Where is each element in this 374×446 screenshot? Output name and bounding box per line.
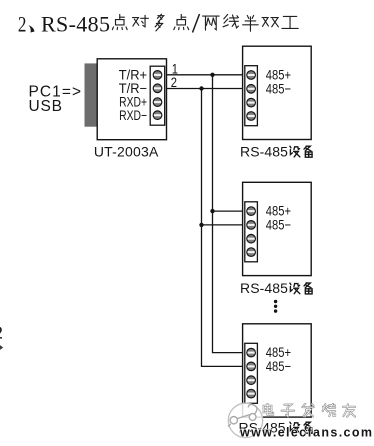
- svg-text:485−: 485−: [266, 217, 291, 232]
- device 2 screw 4: [247, 248, 256, 257]
- wire 1: T/R+ to 485+ bus: [167, 74, 245, 76]
- device 3 screw 485+: [247, 348, 256, 357]
- device 1 screw 485+: [247, 71, 256, 80]
- svg-text:RS-485: RS-485: [41, 11, 110, 36]
- device 3 screw 3: [247, 376, 256, 385]
- watermark logo circle: [228, 403, 263, 437]
- terminal screw converter pin T/R-: [153, 84, 162, 93]
- wire: 485+ bus vertical drop to device 3: [213, 75, 245, 353]
- device 1 name RS-485设备: [240, 143, 312, 159]
- device 3 screw 4: [247, 389, 256, 398]
- converter UT-2003A box: [97, 59, 166, 140]
- svg-text:RS-485: RS-485: [240, 280, 288, 296]
- device 3 screw 485-: [247, 362, 256, 371]
- svg-text:485−: 485−: [266, 81, 291, 96]
- terminal screw converter pin T/R+: [153, 71, 162, 80]
- device 1 screw 485-: [247, 85, 256, 94]
- device 3 terminal strip: [245, 343, 258, 403]
- svg-text:UT-2003A: UT-2003A: [94, 143, 159, 159]
- terminal screw converter pin RXD-: [153, 111, 162, 120]
- device 2 screw 485+: [247, 207, 256, 216]
- wire: branch to device 2 485+: [213, 210, 245, 212]
- svg-text:RS-485: RS-485: [240, 143, 288, 159]
- device 3 RS-485 box: [243, 324, 312, 417]
- terminal screw converter pin RXD+: [153, 98, 162, 107]
- label PC1=>USB: [29, 84, 82, 116]
- converter terminal strip: [150, 66, 165, 125]
- wire: branch to device 2 485-: [202, 224, 245, 226]
- svg-text:2: 2: [0, 322, 3, 342]
- wire 2: T/R- to 485- bus: [167, 88, 245, 90]
- svg-text:RXD−: RXD−: [119, 107, 147, 123]
- junction dot wire1 top: [210, 73, 214, 77]
- junction dot device2 485- branch: [199, 223, 203, 227]
- title: 2、RS-485点对多点/两线半双工: [18, 11, 298, 37]
- svg-text:485−: 485−: [266, 359, 291, 374]
- device 1 terminal strip: [245, 66, 258, 126]
- wire: 485- bus vertical drop to device 3: [202, 89, 245, 367]
- device 3 name RS-485设备 (partly under watermark): [239, 419, 313, 435]
- watermark text 电子发烧友: [264, 404, 356, 417]
- device 2 screw 485-: [247, 221, 256, 230]
- device 2 terminal strip: [245, 202, 258, 262]
- device 2 RS-485 box: [243, 182, 312, 275]
- svg-text:2: 2: [18, 12, 27, 37]
- ellipsis between device 2 and 3: [274, 300, 277, 313]
- junction dot device2 485+ branch: [210, 209, 214, 213]
- USB connector plug: [85, 63, 98, 126]
- device 1 screw 4: [247, 112, 256, 121]
- svg-text:USB: USB: [29, 98, 63, 115]
- device 2 name RS-485设备: [240, 280, 312, 296]
- page margin clipped mark: [0, 344, 3, 350]
- device 1 RS-485 box: [243, 46, 312, 139]
- device 2 screw 3: [247, 234, 256, 243]
- svg-text:www.elecfans.com: www.elecfans.com: [239, 426, 372, 440]
- junction dot wire2 top: [199, 86, 203, 90]
- device 1 screw 3: [247, 98, 256, 107]
